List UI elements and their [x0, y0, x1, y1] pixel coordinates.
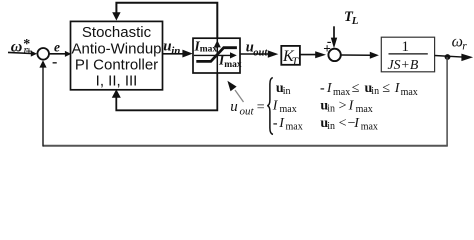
svg-text:u: u: [230, 99, 238, 115]
wire: KT to summing junction S2: [300, 54, 317, 56]
svg-text:-: -: [327, 34, 332, 49]
saturation horizontal axis: [194, 54, 231, 56]
wire: input to summing junction: [8, 52, 31, 53]
block G1: 1/(JS+B) plant: [381, 37, 434, 72]
svg-text:in: in: [171, 45, 180, 57]
svg-text:in: in: [327, 121, 335, 132]
wire: S1 to PI controller: [49, 53, 66, 55]
svg-text:max: max: [361, 122, 378, 133]
wire: speed feedback bottom: [43, 145, 448, 147]
svg-text:-: -: [52, 54, 57, 71]
wire: PI controller to saturation: [163, 53, 184, 55]
svg-text:1: 1: [402, 39, 410, 55]
block U1: Stochastic Antio-Windup PI Controller: [71, 21, 163, 89]
svg-text:max: max: [333, 87, 350, 98]
svg-text:<: <: [339, 116, 347, 131]
svg-text:out: out: [253, 48, 268, 59]
svg-text:=: =: [257, 100, 265, 115]
wire: S2 to plant: [341, 54, 371, 56]
summing junction S2: [328, 49, 340, 61]
wire: T_L input arrow: [333, 26, 335, 39]
svg-text:e: e: [54, 39, 60, 54]
saturation curve: [196, 48, 237, 62]
node annotation arrow to saturation block: [235, 90, 244, 102]
block KT: torque constant: [281, 46, 300, 68]
node omega_r output label: [452, 33, 468, 52]
brace: [267, 78, 273, 135]
svg-text:≤: ≤: [382, 81, 390, 96]
svg-text:L: L: [351, 15, 359, 27]
svg-text:max: max: [401, 87, 418, 98]
svg-text:I, II, III: I, II, III: [96, 73, 138, 90]
svg-text:in: in: [371, 86, 379, 97]
wire: bottom anti-windup feedback: [116, 73, 217, 110]
node T_L load torque label: [344, 9, 359, 27]
svg-text:in: in: [327, 104, 335, 115]
svg-text:>: >: [339, 98, 347, 113]
wire: speed feedback right vertical: [446, 57, 448, 146]
node omega_r* reference label: [11, 37, 33, 59]
svg-text:max: max: [224, 60, 242, 70]
node u_out label: [246, 40, 269, 59]
svg-text:max: max: [280, 104, 297, 115]
saturation vertical axis line: [216, 38, 218, 73]
svg-text:Antio-Windup: Antio-Windup: [71, 41, 161, 58]
node u_in label: [163, 39, 180, 57]
svg-text:-: -: [273, 116, 278, 131]
node equation u_out definition: [230, 78, 418, 135]
wire: saturation to KT: [240, 53, 269, 55]
wire: plant output: [435, 56, 463, 58]
svg-text:out: out: [240, 106, 255, 118]
svg-text:max: max: [200, 45, 218, 55]
svg-text:≤: ≤: [352, 81, 360, 96]
svg-text:max: max: [356, 104, 373, 115]
svg-text:PI Controller: PI Controller: [75, 57, 158, 74]
svg-text:JS+B: JS+B: [388, 57, 419, 72]
wire: speed feedback left vertical: [42, 67, 44, 147]
svg-text:in: in: [283, 86, 291, 97]
svg-text:ω: ω: [452, 33, 463, 50]
node junction dot: [445, 54, 451, 60]
block N1: saturation nonlinearity: [193, 38, 242, 73]
wire: top anti-windup feedback: [116, 3, 217, 39]
svg-text:r: r: [462, 40, 467, 52]
svg-text:max: max: [286, 122, 303, 133]
summing junction S1: [37, 48, 49, 60]
svg-text:Stochastic: Stochastic: [82, 24, 152, 41]
svg-text:-: -: [320, 81, 325, 96]
